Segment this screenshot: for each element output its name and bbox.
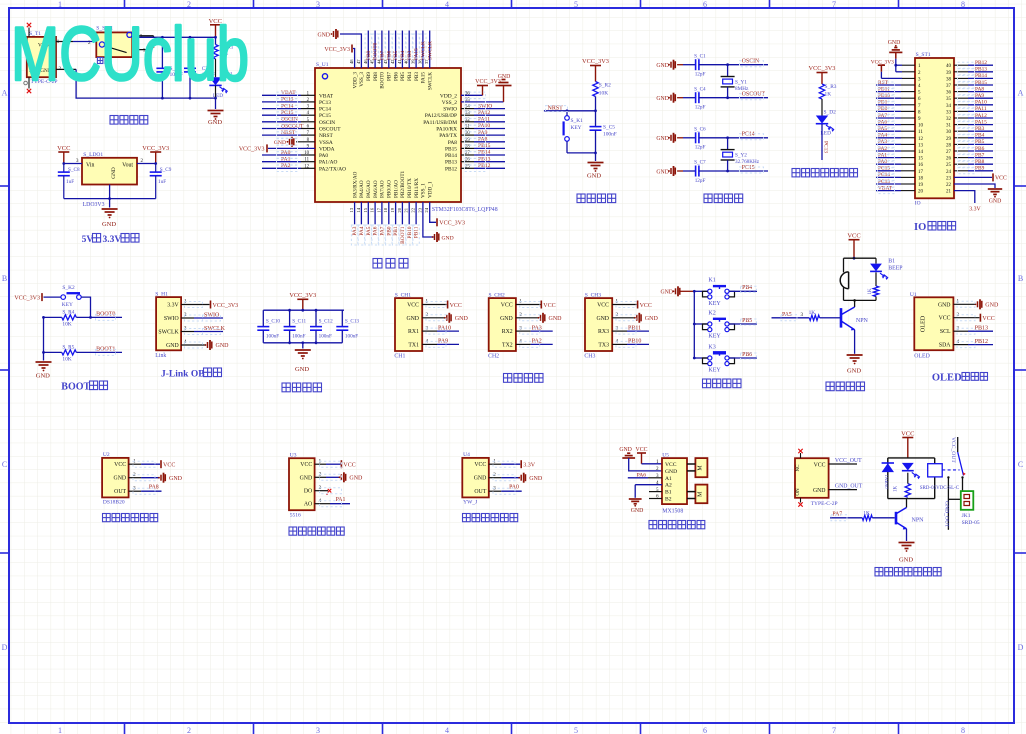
svg-text:GND: GND: [660, 289, 673, 295]
svg-text:IO: IO: [914, 222, 926, 233]
svg-text:VDD_3: VDD_3: [352, 72, 358, 89]
svg-text:TYPE-C-2P: TYPE-C-2P: [811, 501, 838, 507]
svg-text:27: 27: [946, 150, 952, 155]
svg-text:21: 21: [946, 190, 952, 195]
svg-text:D: D: [1018, 643, 1024, 652]
svg-text:PA4: PA4: [878, 133, 887, 139]
svg-text:S_Y2: S_Y2: [735, 153, 747, 159]
svg-text:14: 14: [356, 207, 361, 212]
svg-text:S_ST1: S_ST1: [916, 52, 931, 58]
svg-text:15: 15: [918, 157, 924, 162]
svg-text:NPN: NPN: [856, 318, 869, 324]
svg-text:S_C1: S_C1: [694, 53, 706, 59]
svg-text:S_D2: S_D2: [824, 110, 837, 116]
svg-text:SWIO: SWIO: [164, 316, 179, 322]
svg-text:3: 3: [316, 0, 320, 9]
svg-text:NRST: NRST: [548, 106, 564, 112]
svg-text:PA2: PA2: [281, 163, 291, 169]
svg-text:PC14: PC14: [742, 132, 755, 138]
svg-text:VCC: VCC: [450, 303, 462, 309]
svg-text:S_R2: S_R2: [599, 83, 611, 89]
svg-text:SCL: SCL: [940, 329, 951, 335]
svg-text:GND: GND: [317, 33, 330, 39]
svg-text:PB3: PB3: [975, 126, 985, 132]
svg-text:PB14: PB14: [445, 153, 457, 159]
svg-text:PA1: PA1: [878, 152, 887, 158]
svg-text:TX2: TX2: [502, 342, 513, 348]
svg-text:GND: GND: [899, 557, 913, 564]
svg-text:PB10: PB10: [878, 93, 890, 99]
svg-text:PA4/AO: PA4/AO: [359, 180, 365, 198]
svg-text:PA8: PA8: [149, 485, 159, 491]
svg-text:TX3: TX3: [598, 342, 609, 348]
svg-text:VBAT: VBAT: [281, 90, 296, 96]
svg-text:VCC: VCC: [665, 462, 677, 468]
svg-text:OSCIN: OSCIN: [742, 59, 760, 65]
svg-text:BOOT: BOOT: [61, 382, 90, 393]
svg-text:40: 40: [946, 64, 952, 69]
svg-text:SRD-05VDC-SL-C: SRD-05VDC-SL-C: [920, 486, 960, 491]
svg-text:GND: GND: [587, 173, 601, 180]
svg-text:Vin: Vin: [86, 162, 94, 168]
svg-text:VCC: VCC: [300, 462, 312, 468]
svg-text:MX1508: MX1508: [662, 508, 683, 514]
svg-text:37: 37: [946, 84, 952, 89]
svg-text:100nF: 100nF: [345, 333, 358, 339]
svg-text:PC14: PC14: [319, 107, 331, 113]
svg-text:VCC: VCC: [982, 316, 994, 322]
svg-text:VCC: VCC: [636, 447, 648, 453]
svg-text:PA2: PA2: [878, 146, 887, 152]
svg-text:S_C8: S_C8: [68, 167, 80, 173]
svg-text:PB0/AO: PB0/AO: [387, 180, 393, 198]
svg-text:6: 6: [703, 726, 707, 734]
svg-text:PC15: PC15: [281, 110, 294, 116]
svg-text:J-Link OB: J-Link OB: [161, 369, 205, 379]
svg-text:VCC: VCC: [939, 316, 951, 322]
svg-text:GND_OUT: GND_OUT: [835, 483, 863, 489]
svg-text:GND: GND: [938, 302, 951, 308]
svg-text:PC13: PC13: [823, 141, 829, 153]
svg-text:AO: AO: [304, 502, 312, 508]
svg-text:PC14: PC14: [878, 172, 890, 178]
svg-text:CH1: CH1: [394, 354, 405, 360]
svg-text:GND: GND: [274, 140, 286, 146]
svg-text:23: 23: [946, 176, 952, 181]
svg-text:PA11/USB/DM: PA11/USB/DM: [423, 120, 457, 126]
svg-text:IO: IO: [915, 201, 921, 207]
svg-text:100nF: 100nF: [266, 333, 279, 339]
svg-text:OUT: OUT: [114, 489, 126, 495]
svg-text:K2: K2: [708, 310, 715, 316]
svg-text:5516: 5516: [290, 513, 301, 519]
svg-text:KEY: KEY: [571, 125, 582, 131]
svg-text:PA1: PA1: [336, 497, 346, 503]
svg-text:OUT: OUT: [474, 489, 486, 495]
svg-text:VBAT: VBAT: [319, 93, 334, 99]
svg-text:12: 12: [918, 137, 924, 142]
svg-text:PA2: PA2: [532, 339, 542, 345]
svg-text:GND: GND: [474, 476, 487, 482]
svg-text:VDD_1: VDD_1: [428, 181, 434, 198]
svg-text:PA9: PA9: [438, 339, 448, 345]
svg-text:S_C13: S_C13: [345, 318, 360, 324]
svg-text:S_C9: S_C9: [160, 167, 172, 173]
svg-text:VCC: VCC: [995, 176, 1007, 182]
svg-text:GND: GND: [498, 74, 511, 80]
svg-text:14: 14: [918, 150, 924, 155]
svg-text:VCC_3V3: VCC_3V3: [213, 303, 239, 309]
svg-text:GND: GND: [985, 303, 999, 309]
svg-text:D: D: [2, 643, 8, 652]
svg-text:21: 21: [404, 207, 409, 212]
svg-text:SRD-05: SRD-05: [962, 520, 980, 526]
svg-text:PB7: PB7: [387, 72, 393, 81]
svg-text:PB15: PB15: [478, 143, 491, 149]
svg-text:33: 33: [946, 110, 952, 115]
svg-text:16: 16: [370, 207, 375, 212]
svg-text:10K: 10K: [62, 321, 71, 327]
svg-text:VSS_3: VSS_3: [359, 72, 365, 87]
svg-text:NPN: NPN: [912, 518, 925, 524]
svg-text:PB5: PB5: [975, 139, 985, 145]
svg-text:GND: GND: [656, 169, 669, 175]
svg-text:PB12: PB12: [445, 166, 457, 172]
svg-text:OSCOUT: OSCOUT: [281, 123, 304, 129]
svg-text:24: 24: [946, 170, 952, 175]
svg-text:B1: B1: [665, 490, 672, 496]
svg-text:GND: GND: [114, 476, 127, 482]
svg-text:RX3: RX3: [598, 329, 609, 335]
svg-text:PB8: PB8: [975, 159, 985, 165]
svg-text:JK1: JK1: [962, 513, 971, 519]
svg-text:PC14: PC14: [281, 103, 294, 109]
svg-text:A1: A1: [665, 476, 672, 482]
svg-text:OSCOUT: OSCOUT: [319, 127, 341, 133]
svg-text:PB7: PB7: [975, 152, 985, 158]
svg-text:18: 18: [383, 207, 388, 212]
svg-text:C: C: [1018, 460, 1023, 469]
svg-text:VCC: VCC: [814, 462, 826, 468]
svg-text:1K: 1K: [825, 92, 832, 98]
svg-text:GND: GND: [656, 136, 669, 142]
svg-text:PA2/TX/AO: PA2/TX/AO: [319, 166, 346, 172]
svg-text:VCC_3V3: VCC_3V3: [239, 147, 265, 153]
svg-text:NC: NC: [796, 464, 801, 472]
svg-text:VCC: VCC: [543, 303, 555, 309]
svg-text:GND: GND: [529, 476, 543, 482]
svg-text:5V: 5V: [82, 235, 94, 245]
svg-text:38: 38: [946, 77, 952, 82]
svg-text:S_C5: S_C5: [603, 125, 615, 131]
svg-text:PA7: PA7: [878, 113, 887, 119]
svg-text:10: 10: [918, 124, 924, 129]
svg-text:PA3: PA3: [878, 139, 887, 145]
svg-text:1N4007: 1N4007: [884, 475, 889, 491]
svg-text:8: 8: [961, 726, 965, 734]
svg-text:S_U1: S_U1: [316, 62, 329, 68]
svg-text:25: 25: [946, 163, 952, 168]
svg-text:PB6: PB6: [393, 72, 399, 81]
svg-text:PB3: PB3: [414, 72, 420, 81]
svg-text:GND: GND: [989, 199, 1002, 205]
svg-text:VCC: VCC: [57, 145, 70, 152]
svg-text:ON: ON: [796, 488, 801, 496]
svg-text:B: B: [1018, 274, 1023, 283]
svg-text:PA9: PA9: [478, 130, 488, 136]
svg-text:VSS_2: VSS_2: [442, 100, 458, 106]
svg-text:10K: 10K: [62, 356, 71, 362]
svg-text:GND: GND: [349, 476, 363, 482]
svg-text:GND: GND: [888, 40, 901, 46]
svg-text:PB11/RX: PB11/RX: [414, 178, 420, 198]
svg-text:PB8: PB8: [373, 72, 379, 81]
svg-text:PA10: PA10: [478, 123, 490, 129]
svg-text:1K: 1K: [893, 486, 898, 493]
svg-text:11: 11: [918, 130, 923, 135]
svg-text:8: 8: [961, 0, 965, 9]
svg-text:PB12: PB12: [975, 339, 988, 345]
svg-text:PB1/AO: PB1/AO: [393, 180, 399, 198]
svg-text:PC15: PC15: [319, 113, 331, 119]
svg-text:100nF: 100nF: [292, 333, 305, 339]
svg-text:S_K2: S_K2: [62, 285, 75, 291]
svg-text:SWCLK: SWCLK: [428, 72, 434, 90]
svg-text:A: A: [2, 89, 8, 98]
svg-text:VCC: VCC: [474, 462, 486, 468]
svg-text:PA6: PA6: [878, 119, 887, 125]
svg-text:BOOT0: BOOT0: [380, 72, 386, 89]
svg-text:S_R5: S_R5: [62, 345, 74, 351]
svg-text:S_K1: S_K1: [571, 118, 584, 124]
svg-text:GND: GND: [656, 96, 669, 102]
svg-text:GND: GND: [596, 316, 609, 322]
svg-text:SWIO: SWIO: [443, 107, 457, 113]
svg-text:DO: DO: [304, 489, 312, 495]
svg-text:PB5: PB5: [400, 72, 406, 81]
svg-text:Link: Link: [155, 353, 166, 359]
svg-text:28: 28: [946, 143, 952, 148]
svg-text:GND: GND: [442, 235, 454, 241]
svg-text:23: 23: [417, 207, 422, 212]
svg-text:VCC_3V3: VCC_3V3: [142, 145, 169, 152]
svg-text:39: 39: [946, 71, 952, 76]
svg-text:PB6: PB6: [975, 146, 985, 152]
svg-text:PB15: PB15: [445, 146, 457, 152]
svg-text:GND: GND: [549, 316, 563, 322]
svg-text:NRST: NRST: [319, 133, 333, 139]
svg-text:1K: 1K: [809, 310, 816, 316]
svg-text:GND: GND: [169, 476, 183, 482]
svg-text:4: 4: [445, 726, 449, 734]
svg-text:VSSA: VSSA: [319, 140, 333, 146]
svg-text:100nF: 100nF: [319, 333, 332, 339]
svg-text:GND: GND: [208, 119, 222, 126]
svg-text:GND: GND: [216, 343, 230, 349]
svg-text:SWCLK: SWCLK: [427, 41, 433, 60]
svg-text:2: 2: [187, 726, 191, 734]
svg-text:PA12: PA12: [478, 110, 490, 116]
svg-text:PB10/TX: PB10/TX: [407, 178, 413, 198]
svg-text:PA15: PA15: [421, 72, 427, 84]
svg-text:1K: 1K: [863, 511, 870, 517]
svg-text:PC15: PC15: [742, 165, 755, 171]
svg-text:VCC_3V3: VCC_3V3: [289, 292, 316, 299]
svg-text:PB14: PB14: [975, 73, 987, 79]
svg-text:VSS_1: VSS_1: [421, 183, 427, 198]
svg-text:S_Y1: S_Y1: [735, 79, 747, 85]
svg-text:GND: GND: [500, 316, 513, 322]
svg-text:VCC: VCC: [847, 233, 860, 240]
svg-text:PB15: PB15: [975, 80, 987, 86]
svg-text:31: 31: [946, 124, 952, 129]
svg-text:30: 30: [946, 130, 952, 135]
svg-text:VCC: VCC: [163, 463, 175, 469]
svg-text:PA0: PA0: [878, 159, 887, 165]
svg-text:PA15: PA15: [975, 119, 987, 125]
svg-text:MCUclub: MCUclub: [11, 12, 249, 97]
svg-text:PB4: PB4: [407, 72, 413, 81]
svg-text:OSCIN: OSCIN: [281, 117, 298, 123]
svg-text:24: 24: [424, 207, 429, 212]
svg-text:PA6/AO: PA6/AO: [373, 180, 379, 198]
svg-text:PA7/AO: PA7/AO: [380, 180, 386, 198]
svg-text:19: 19: [918, 183, 924, 188]
svg-text:3: 3: [316, 726, 320, 734]
svg-text:8MHz: 8MHz: [735, 86, 749, 92]
svg-text:PB9: PB9: [975, 166, 985, 172]
svg-text:B2: B2: [665, 497, 672, 503]
svg-text:VCC: VCC: [501, 303, 513, 309]
svg-text:GND: GND: [102, 221, 116, 228]
svg-text:VDD_2: VDD_2: [440, 93, 457, 99]
svg-text:PA10: PA10: [975, 100, 987, 106]
svg-text:VCC: VCC: [407, 303, 419, 309]
svg-text:GND: GND: [455, 316, 469, 322]
svg-text:CH3: CH3: [584, 354, 595, 360]
svg-text:GND: GND: [295, 366, 309, 373]
svg-text:PA3: PA3: [532, 325, 542, 331]
svg-text:GND: GND: [36, 373, 50, 380]
svg-text:S_C6: S_C6: [694, 127, 706, 133]
svg-text:DS18B20: DS18B20: [103, 500, 125, 506]
svg-text:PB14: PB14: [478, 150, 491, 156]
svg-text:12pF: 12pF: [695, 72, 706, 78]
svg-text:PC13: PC13: [319, 100, 331, 106]
svg-text:S_LDO1: S_LDO1: [83, 152, 103, 158]
svg-text:3.3V: 3.3V: [969, 207, 981, 213]
svg-text:PB1: PB1: [878, 100, 888, 106]
svg-text:5: 5: [574, 726, 578, 734]
svg-text:S_C11: S_C11: [292, 318, 306, 324]
svg-text:18: 18: [918, 176, 924, 181]
svg-text:PB12: PB12: [478, 163, 491, 169]
svg-text:29: 29: [946, 137, 952, 142]
svg-text:TX1: TX1: [408, 342, 419, 348]
svg-text:3.3V: 3.3V: [167, 303, 179, 309]
svg-text:12pF: 12pF: [695, 178, 706, 184]
svg-text:VCC_OUT: VCC_OUT: [835, 458, 862, 464]
svg-text:VBAT: VBAT: [878, 185, 893, 191]
svg-text:1uF: 1uF: [66, 179, 74, 185]
svg-text:KEY: KEY: [708, 368, 721, 374]
svg-text:5: 5: [574, 0, 578, 9]
svg-text:GND_OUT: GND_OUT: [943, 501, 949, 528]
svg-text:C: C: [2, 460, 7, 469]
svg-text:PB13: PB13: [975, 325, 988, 331]
svg-text:K3: K3: [708, 344, 715, 350]
svg-text:VCC: VCC: [343, 463, 355, 469]
svg-text:26: 26: [946, 157, 952, 162]
svg-text:B1: B1: [888, 259, 895, 265]
svg-text:PB12: PB12: [975, 60, 987, 66]
svg-text:PA11: PA11: [975, 106, 987, 112]
svg-text:VCC_OUT: VCC_OUT: [950, 437, 956, 463]
svg-text:PA11: PA11: [478, 117, 490, 123]
svg-text:17: 17: [918, 170, 924, 175]
svg-text:PA12/USB/DP: PA12/USB/DP: [425, 113, 457, 119]
svg-text:PA0: PA0: [509, 485, 519, 491]
svg-text:STM32F103C8T6_LQFP48: STM32F103C8T6_LQFP48: [432, 207, 498, 213]
svg-text:A: A: [1018, 89, 1024, 98]
svg-text:VCC_3V3: VCC_3V3: [439, 221, 465, 227]
svg-text:PB13: PB13: [445, 160, 457, 166]
svg-text:7: 7: [832, 0, 836, 9]
svg-text:S_R3: S_R3: [825, 84, 837, 90]
svg-text:VCC: VCC: [597, 303, 609, 309]
svg-text:GND: GND: [166, 343, 179, 349]
svg-text:PA12: PA12: [975, 113, 987, 119]
svg-text:S_R4: S_R4: [62, 310, 74, 316]
svg-text:32: 32: [946, 117, 952, 122]
svg-text:GND: GND: [619, 447, 632, 453]
svg-text:RX2: RX2: [502, 329, 513, 335]
svg-text:4: 4: [445, 0, 449, 9]
svg-text:KEY: KEY: [62, 302, 73, 308]
svg-text:2: 2: [187, 0, 191, 9]
svg-text:PA5/AO: PA5/AO: [366, 180, 372, 198]
svg-text:PA1/AO: PA1/AO: [319, 160, 337, 166]
svg-text:PA8: PA8: [448, 140, 457, 146]
svg-text:100nF: 100nF: [603, 132, 617, 138]
svg-text:OLED: OLED: [932, 373, 962, 384]
svg-text:KEY: KEY: [708, 334, 721, 340]
svg-text:PC15: PC15: [878, 166, 890, 172]
svg-text:OLED: OLED: [920, 315, 927, 332]
svg-text:35: 35: [946, 97, 952, 102]
svg-text:7: 7: [832, 726, 836, 734]
svg-text:1: 1: [58, 726, 62, 734]
svg-text:VCC: VCC: [114, 462, 126, 468]
svg-text:PB13: PB13: [478, 156, 491, 162]
svg-text:GND: GND: [406, 316, 419, 322]
svg-text:GND: GND: [111, 167, 117, 179]
svg-text:B: B: [2, 274, 7, 283]
svg-text:CH2: CH2: [488, 354, 499, 360]
svg-text:GND: GND: [813, 488, 826, 494]
svg-text:13: 13: [349, 207, 354, 212]
svg-text:16: 16: [918, 163, 924, 168]
svg-text:36: 36: [946, 91, 952, 96]
svg-text:RX1: RX1: [408, 329, 419, 335]
svg-text:NRST: NRST: [281, 130, 296, 136]
svg-text:PA9: PA9: [975, 93, 984, 99]
svg-text:32.768KHz: 32.768KHz: [735, 159, 760, 165]
svg-text:6: 6: [703, 0, 707, 9]
svg-text:Vout: Vout: [122, 162, 133, 168]
svg-text:GND: GND: [631, 508, 644, 514]
svg-text:M: M: [698, 491, 704, 497]
